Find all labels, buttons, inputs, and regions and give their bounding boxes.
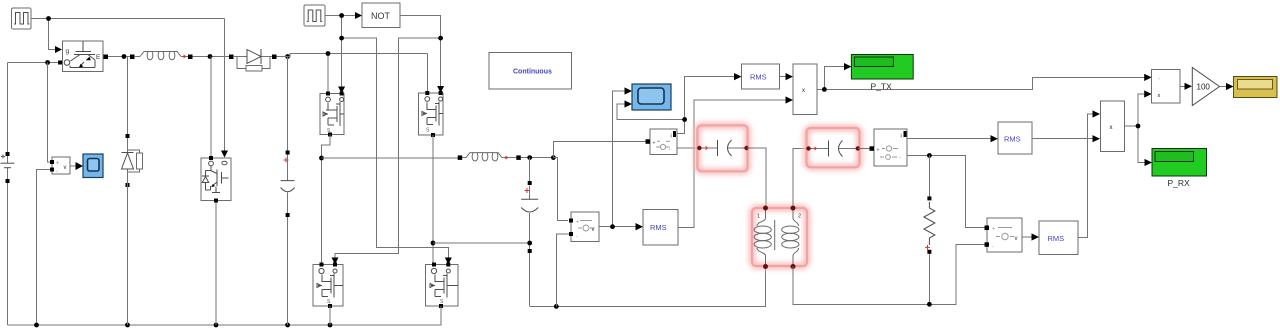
MOSFET Q1	[320, 92, 344, 137]
node: DC link capacitor tap	[285, 54, 290, 59]
capacitor C2 (parallel branch)	[521, 158, 538, 306]
wire: VM1 minus to bottom rail	[37, 170, 53, 326]
voltage measurement VM3	[985, 218, 1023, 252]
arrowhead into product2 input2	[1093, 135, 1101, 142]
wire: left bridge node to inductor L2	[322, 157, 459, 159]
block RMS1	[742, 64, 780, 89]
wire: Q1 source to left bridge node	[322, 135, 331, 263]
current measurement CM2	[870, 129, 908, 166]
wire: CM2 minus to R load and VM3 plus	[907, 156, 985, 228]
wire: TX node down to VM2 plus	[553, 158, 568, 221]
wire: product1 output to P_TX display and efficiency line	[817, 67, 1145, 90]
arrowhead into divide input1	[1144, 74, 1152, 81]
svg-text:NOT: NOT	[371, 11, 391, 21]
svg-text:+: +	[576, 220, 579, 226]
arrowhead into IGBT2 gate	[221, 151, 228, 158]
block RMS2	[643, 210, 678, 246]
wire: NOT output to complementary gate net	[335, 16, 441, 259]
pulse generator P1	[12, 8, 32, 29]
arrowhead into RMS1	[734, 73, 742, 80]
display P_RX	[1152, 149, 1207, 177]
port: IGBT U1 emitter	[104, 55, 109, 60]
node: DC link capacitor on rail	[285, 323, 290, 328]
product block X2	[1100, 101, 1124, 152]
svg-text:i: i	[901, 134, 902, 140]
svg-text:+: +	[992, 227, 995, 233]
svg-text:v: v	[64, 165, 67, 171]
wire: tap down to VM1 plus	[48, 63, 52, 163]
svg-text:RMS: RMS	[1048, 234, 1065, 243]
wire: RMS3 output to product2 input2	[1032, 138, 1093, 140]
svg-text:P_RX: P_RX	[1168, 178, 1191, 188]
node: P_TX junction	[822, 87, 827, 92]
node: TX node junction	[551, 155, 556, 160]
svg-text:1: 1	[757, 214, 760, 220]
arrowhead into MOSFET Q2 gate	[437, 86, 444, 93]
node: P1 output junction	[46, 16, 51, 21]
wire: IGBT U1 emitter to inductor L1	[108, 56, 132, 58]
MOSFET Q3	[313, 263, 343, 309]
resistor R1 (load)	[924, 156, 935, 303]
wire: P1 output to junction and across to IGBT2 gate	[31, 19, 225, 151]
svg-text:v: v	[1015, 236, 1018, 242]
arrowhead into RMS4	[1032, 233, 1040, 240]
node: MOSFET Q3 source on rail	[328, 323, 333, 328]
wire: VM2 minus lead	[556, 234, 571, 306]
node: NOT net junction	[438, 36, 443, 41]
node: gate net junction	[339, 36, 344, 41]
IGBT U1	[63, 41, 104, 71]
wire: gain output to display	[1220, 86, 1227, 88]
node: IGBT2 collector tap	[208, 54, 213, 59]
arrowhead into IGBT1 gate	[55, 46, 62, 53]
arrowhead into MOSFET Q1 gate	[338, 87, 345, 94]
wire: RMS1 to product1	[780, 76, 787, 78]
wire: P2 output to NOT and gate net	[325, 16, 448, 259]
svg-text:i: i	[671, 134, 672, 140]
highlighted transformer T1	[752, 206, 807, 270]
node: VM1 minus on rail	[34, 323, 39, 328]
arrowhead into product2 input1	[1093, 110, 1101, 117]
highlighted capacitor C_TX	[697, 125, 749, 171]
arrowhead into Scope2 input2	[625, 100, 633, 107]
arrowhead into RMS3	[991, 135, 999, 142]
node: R load bottom on RX rail	[927, 302, 932, 307]
wire: inductor L1 to diode D1	[193, 56, 232, 58]
powergui Continuous block	[489, 53, 572, 90]
svg-text:·: ·	[1158, 76, 1160, 82]
voltage measurement VM1	[50, 157, 70, 175]
logic NOT U3	[362, 3, 400, 28]
block RMS4	[1039, 221, 1078, 255]
wire: VM3 output to RMS4	[1022, 236, 1032, 238]
divide block X3	[1152, 70, 1180, 104]
wire: CM1 i output to scope and RMS1	[617, 77, 735, 134]
wire: Q3 source to rail	[329, 306, 331, 325]
svg-text:+: +	[56, 161, 59, 167]
inductor L1	[130, 52, 193, 60]
node: VM2 output junction	[610, 224, 615, 229]
display efficiency (yellow)	[1234, 77, 1278, 98]
arrowhead into MOSFET Q4 gate	[445, 258, 452, 265]
pulse generator P2	[304, 5, 325, 26]
arrowhead into P_RX display	[1145, 159, 1153, 166]
scope Scope2	[632, 84, 671, 110]
capacitor C1 (DC link)	[281, 57, 295, 326]
product block X1	[793, 64, 817, 115]
svg-text:100: 100	[1197, 83, 1211, 92]
wire: TX node up to current measurement CM1	[553, 141, 647, 157]
svg-text:x: x	[802, 88, 805, 94]
node: diode branch on rail	[125, 323, 130, 328]
wire: RMS4 output up to product2 input1	[1078, 114, 1093, 238]
wire: drain rail verticals to Q1 Q2	[328, 54, 427, 92]
arrowhead into product1 input2	[786, 96, 794, 103]
svg-text:g: g	[66, 48, 70, 55]
node: R load top junction	[927, 153, 932, 158]
svg-text:RMS: RMS	[650, 223, 667, 232]
node: freewheel diode tap	[122, 54, 127, 59]
arrowhead into gain	[1185, 83, 1193, 90]
svg-text:+: +	[877, 148, 880, 154]
wire: Q4 source to rail	[440, 306, 442, 325]
DC voltage source V1	[1, 63, 15, 326]
diode D1 (series with snubber)	[229, 49, 277, 71]
node: drain rail junction	[326, 51, 331, 56]
wire: tap down to IGBT2	[210, 57, 212, 157]
wire: diode D1 to cap and MOSFET drain rail	[277, 54, 428, 57]
arrowhead into MOSFET Q3 gate	[332, 258, 339, 265]
display P_TX	[851, 55, 913, 80]
wire: L2 to TX node	[521, 157, 554, 159]
svg-text:Continuous: Continuous	[513, 69, 552, 76]
arrowhead into Scope2 input1	[625, 87, 633, 94]
node: P_RX junction	[1136, 124, 1141, 129]
svg-text:P_TX: P_TX	[871, 82, 893, 92]
wire: CM1 minus to C_TX	[677, 147, 697, 149]
highlighted capacitor C_RX	[806, 128, 860, 167]
wire: IGBT U2 emitter to rail	[215, 203, 217, 326]
node: P2 output junction	[339, 13, 344, 18]
node: tap to voltage measurement	[45, 60, 50, 65]
arrowhead into product1 input1	[786, 73, 794, 80]
arrowhead into NOT	[355, 12, 362, 19]
wire: right bridge node to resonant tank return	[433, 242, 530, 244]
wire: VM1 output to Scope1	[70, 165, 77, 167]
node: IGBT2 emitter on rail	[214, 323, 219, 328]
block RMS3	[998, 122, 1032, 154]
inductor L2 (TX series)	[458, 153, 521, 161]
IGBT U2 (chopper)	[201, 156, 231, 203]
node: right bridge output	[431, 241, 436, 246]
diode D2 (vertical freewheel)	[122, 134, 143, 325]
svg-text:x: x	[1110, 125, 1113, 131]
svg-text:x: x	[1158, 93, 1161, 99]
node: parallel cap tap	[527, 155, 532, 160]
wire: C_TX to transformer primary	[747, 148, 767, 206]
scope Scope1	[83, 154, 103, 178]
node: CM1 i junction	[682, 117, 687, 122]
wire: transformer secondary up to C_RX	[793, 149, 807, 207]
wire: Q2 source to right bridge node and Q4 drain	[432, 135, 434, 263]
svg-text:2: 2	[798, 214, 801, 220]
svg-text:RMS: RMS	[1004, 135, 1021, 144]
node: left bridge output	[319, 156, 324, 161]
arrowhead into P_TX display	[844, 63, 851, 70]
arrowhead into RMS2	[636, 223, 644, 230]
TX return rail wire	[530, 267, 766, 307]
wire: transformer secondary return	[793, 245, 985, 305]
wire: VM2 output to RMS2 and scope	[599, 91, 637, 227]
wire: RMS2 output up to product1 input2	[678, 100, 786, 228]
port: IGBT U1 collector	[58, 61, 62, 65]
wire: CM2 i output to RMS3	[907, 138, 991, 140]
svg-text:E: E	[96, 54, 101, 61]
current measurement CM1	[646, 129, 678, 155]
wire: product2 output to divide and P_RX display	[1124, 94, 1144, 163]
MOSFET Q2	[419, 91, 444, 137]
svg-text:v: v	[592, 227, 595, 233]
arrowhead into divide input2	[1144, 90, 1152, 97]
wire: C_RX to CM2	[858, 148, 870, 150]
wire: DC+ rail up to IGBT U1 collector	[8, 62, 59, 64]
wire: tap down to diode D2	[127, 57, 129, 137]
svg-text:+: +	[653, 141, 656, 147]
node: VM2 minus on TX rail	[554, 304, 559, 309]
wire: divide output to gain	[1180, 85, 1185, 87]
svg-text:RMS: RMS	[750, 73, 767, 82]
voltage measurement VM2	[569, 212, 599, 242]
gain G1 (100)	[1192, 68, 1219, 106]
arrowhead into Scope1	[76, 162, 84, 170]
arrowhead into efficiency display	[1226, 83, 1234, 90]
MOSFET Q4	[426, 263, 459, 309]
bottom rail wire	[8, 306, 442, 325]
